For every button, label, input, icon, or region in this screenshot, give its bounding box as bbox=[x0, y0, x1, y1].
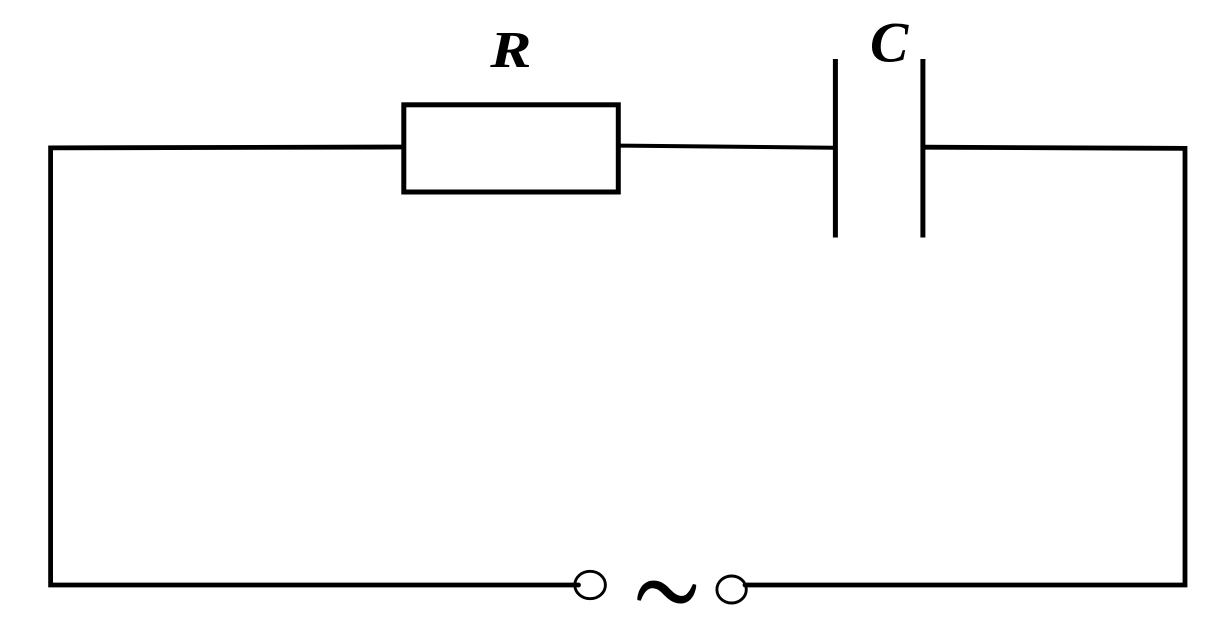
AC source: sine (tilde) symbol bbox=[637, 581, 696, 604]
resistor R (rectangle body) bbox=[404, 105, 619, 192]
capacitor C: left plate bbox=[833, 59, 838, 238]
svg-text:R: R bbox=[489, 22, 531, 79]
capacitor C: right plate bbox=[920, 59, 925, 238]
wire: right side loop (top-right lead, right vertical, bottom-right lead) bbox=[745, 147, 1185, 585]
AC source: left terminal circle bbox=[575, 571, 606, 598]
svg-text:C: C bbox=[870, 11, 909, 74]
AC source: right terminal circle bbox=[717, 576, 746, 603]
wire: middle segment between resistor and capacitor bbox=[619, 146, 835, 148]
wire: left side loop (top-left lead, left vertical, bottom-left lead) bbox=[51, 147, 579, 585]
